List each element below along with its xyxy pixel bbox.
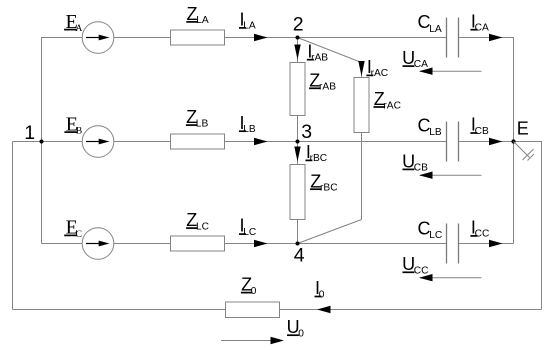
capacitor C_LA (447, 18, 459, 58)
svg-text:Z0: Z0 (241, 275, 257, 297)
wire bottom left rail to Z_0 (13, 309, 226, 311)
arrow U_CC (419, 274, 482, 281)
label C_LB (418, 115, 442, 138)
label E_B (64, 113, 82, 136)
label Z_0 (241, 275, 257, 297)
svg-text:CLB: CLB (418, 115, 442, 138)
arrow I_CB (489, 138, 503, 145)
wire Z_rBC to node 4 (297, 220, 299, 244)
resistor Z_0 (226, 302, 280, 318)
resistor Z_LC (171, 236, 225, 251)
label U_0 (287, 317, 305, 339)
label U_CB (402, 151, 428, 173)
wire row A Z_LA to C_LA via node 2 (225, 37, 447, 39)
wire row B source to Z_LB (114, 141, 171, 143)
arrow U_CB (419, 172, 482, 179)
svg-text:EB: EB (66, 113, 82, 136)
wire diagonal Z_rAC to node 4 (298, 220, 362, 244)
wire bottom Z_0 to right rail (280, 309, 542, 311)
wire row C C_LC to right column (459, 243, 514, 245)
label E_C (64, 217, 82, 240)
resistor Z_LB (171, 134, 225, 149)
label I_rBC (305, 142, 327, 164)
resistor Z_LA (171, 30, 225, 45)
svg-text:ZrAB: ZrAB (309, 70, 336, 92)
svg-text:1: 1 (24, 122, 35, 144)
wire Z_rAC bottom lead (361, 133, 363, 220)
wire Z_rAC top lead (361, 63, 363, 78)
source E_A (82, 22, 114, 54)
svg-text:2: 2 (293, 13, 304, 35)
label I_LA (239, 10, 256, 32)
wire row A from corner to source E_A (42, 38, 83, 244)
wire node 2 to Z_rAB (297, 38, 299, 63)
wire node 3 to Z_rBC (297, 142, 299, 165)
wire row C Z_LC to C_LC via node 4 (225, 243, 447, 245)
arrow I_rBC (294, 147, 300, 162)
capacitor C_LB (447, 122, 459, 162)
svg-text:ZrBC: ZrBC (310, 171, 337, 193)
arrow U_CA (419, 68, 482, 75)
svg-text:EA: EA (66, 11, 83, 34)
node 1 (40, 140, 44, 144)
source E_B (82, 126, 114, 158)
resistor Z_rAC (354, 78, 369, 133)
wire left rail (12, 142, 14, 310)
label Z_rBC (310, 171, 337, 193)
svg-text:CLC: CLC (418, 218, 443, 241)
arrow I_rAC (358, 61, 364, 76)
capacitor C_LC (447, 224, 459, 264)
label Z_LC (186, 210, 209, 232)
arrow U_0 (221, 337, 284, 344)
svg-text:ZLC: ZLC (186, 210, 209, 232)
arrow I_LB (254, 138, 268, 145)
wire row B C_LB to node E (459, 141, 514, 143)
label C_LC (418, 218, 443, 241)
svg-text:EC: EC (66, 217, 82, 240)
wire row A source to Z_LA (114, 37, 171, 39)
svg-text:4: 4 (294, 245, 305, 267)
label I_LB (239, 113, 256, 135)
arrow I_LA (254, 34, 268, 41)
source E_C (82, 228, 114, 260)
svg-text:E: E (517, 118, 529, 138)
ground symbol at node E (514, 142, 535, 161)
wire Z_rAB to node 3 (297, 116, 299, 142)
label C_LA (418, 12, 442, 35)
wire row B Z_LB to C_LB via node 3 (225, 141, 447, 143)
label E_A (64, 11, 82, 34)
label Z_LA (186, 4, 209, 26)
label I_LC (239, 216, 256, 238)
svg-text:ZrAC: ZrAC (374, 89, 401, 111)
resistor Z_rBC (290, 165, 305, 220)
node 2 (296, 36, 300, 40)
node 4 (296, 242, 300, 246)
svg-text:ZLA: ZLA (187, 4, 209, 26)
arrow I_LC (254, 240, 268, 247)
node E (511, 139, 515, 143)
wire diagonal node 2 to Z_rAC (298, 38, 362, 63)
arrow I_rAB (294, 45, 300, 60)
label U_CC (402, 254, 428, 276)
resistor Z_rAB (290, 63, 305, 116)
label I_rAB (307, 41, 328, 63)
label I_CC (470, 218, 489, 240)
label Z_rAC (374, 89, 401, 111)
label I_0 (315, 278, 325, 300)
wire row B left rail to source E_B (13, 141, 83, 143)
label I_CA (470, 11, 489, 33)
arrow I_0 (317, 306, 331, 313)
label U_CA (402, 48, 428, 70)
node 3 (296, 140, 300, 144)
svg-text:ZLB: ZLB (186, 107, 208, 129)
svg-text:CLA: CLA (418, 12, 442, 35)
wire row A C_LA to right column (459, 38, 514, 244)
label Z_rAB (309, 70, 336, 92)
arrow I_CA (489, 34, 503, 41)
label I_rAC (366, 57, 388, 79)
label Z_LB (186, 107, 209, 129)
arrow I_CC (489, 240, 503, 247)
wire row C source to Z_LC (114, 243, 171, 245)
svg-text:3: 3 (301, 121, 312, 143)
wire row C corner to source E_C (42, 243, 83, 245)
label I_CB (470, 115, 489, 137)
wire node E to right rail (514, 142, 542, 310)
